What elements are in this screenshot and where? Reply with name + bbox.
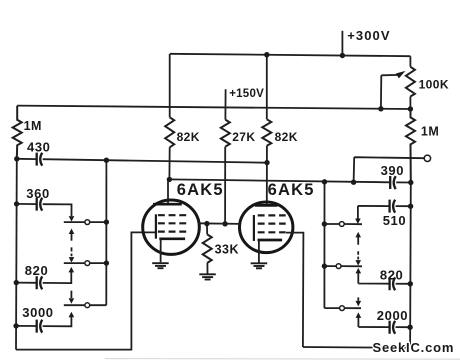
arrow 2000 to contact C — [356, 312, 362, 318]
wire +300V top rail — [170, 54, 410, 56]
switch contact 1 line — [64, 221, 107, 223]
node switch bus at 430 line — [104, 158, 109, 163]
svg-text:+150V: +150V — [229, 88, 264, 100]
node 820R at right cap bus — [408, 281, 413, 286]
svg-text:6AK5: 6AK5 — [177, 181, 224, 199]
switch contact 2 terminal — [85, 261, 90, 266]
switch contact C line — [324, 307, 361, 309]
node contact 1 at switch bus — [104, 219, 109, 224]
node right switch bus at plate line — [322, 179, 327, 184]
svg-text:+300V: +300V — [347, 28, 390, 43]
arrow down above contact 3 — [69, 291, 75, 304]
svg-text:430: 430 — [27, 139, 51, 154]
arrow 360 to contact 1 — [69, 216, 75, 222]
svg-text:390: 390 — [381, 163, 405, 178]
node wiper at +150V rail — [378, 106, 383, 111]
svg-text:100K: 100K — [419, 77, 449, 91]
switch contact 1 terminal — [85, 220, 90, 225]
wire V2 plate lead — [266, 163, 268, 205]
wire 100K pot bottom lead — [409, 97, 411, 110]
switch contact 3 line — [64, 304, 107, 306]
arrow up below contact 1 — [69, 229, 75, 241]
arrow down above contact C — [356, 297, 362, 306]
switch contact B terminal — [336, 264, 341, 269]
switch contact 2 line — [64, 262, 107, 264]
resistor 82K (V2 plate load) — [262, 119, 271, 146]
switch contact 3 terminal — [85, 303, 90, 308]
wire left switch bus — [105, 160, 107, 305]
svg-text:360: 360 — [26, 186, 50, 201]
tube V2 6AK5 — [240, 202, 293, 262]
wire 82K#2 top lead — [266, 55, 268, 120]
output terminal — [424, 155, 430, 161]
svg-text:1M: 1M — [421, 124, 439, 138]
node +300V supply lead — [341, 31, 343, 56]
potentiometer 100K — [406, 67, 415, 97]
svg-text:2000: 2000 — [377, 308, 408, 323]
switch contact B line — [324, 265, 362, 267]
node +300V lead at rail — [340, 53, 345, 58]
arrow 820 to contact 2 — [69, 267, 75, 273]
resistor 1M right (grid leak V2) — [406, 109, 415, 182]
wire right cap bus — [409, 183, 412, 348]
resistor 1M left (grid leak V1) — [13, 106, 22, 159]
wire +150V rail — [17, 106, 410, 109]
arrow up below contact A — [355, 232, 361, 245]
wire V1 plate line — [169, 179, 410, 182]
switch contact C terminal — [340, 306, 345, 311]
capacitor 390 — [390, 176, 396, 189]
svg-text:SeekIC.com: SeekIC.com — [373, 340, 455, 355]
resistor 82K (V1 plate load) — [165, 117, 174, 147]
wire bottom right (V2 grid return) — [303, 346, 410, 349]
ground 33K — [199, 274, 216, 279]
arrow 3000 to contact 3 — [69, 312, 75, 318]
capacitor 510 — [358, 200, 411, 219]
node output tap at plate line — [351, 180, 356, 185]
svg-text:82K: 82K — [275, 130, 298, 144]
wiper arrowhead — [396, 68, 407, 78]
wire bottom left — [16, 232, 156, 349]
svg-text:1M: 1M — [24, 119, 42, 133]
node 2000 at right cap bus — [407, 325, 412, 330]
node 360 at left bus — [14, 201, 19, 206]
node contact B at right switch bus — [322, 263, 327, 268]
wire 82K#2 bottom lead — [266, 146, 268, 163]
node V2 plate junction — [264, 160, 269, 165]
node 33K at screen line — [204, 221, 209, 226]
resistor 33K (screen bleeder) — [203, 224, 212, 274]
capacitor 430 — [17, 153, 267, 166]
node 1M left at 430 line — [14, 156, 19, 161]
svg-text:33K: 33K — [215, 243, 239, 257]
wire V2 grid lead — [286, 233, 303, 347]
arrow down above contact B — [355, 251, 361, 265]
ground V2 cathode — [251, 263, 268, 268]
node V1 plate junction — [167, 177, 172, 182]
svg-text:6AK5: 6AK5 — [268, 181, 315, 199]
capacitor 360 — [17, 198, 72, 216]
wire 100K pot top lead — [409, 56, 411, 67]
wire pot wiper arm — [381, 75, 400, 109]
wire 82K#1 bottom lead — [168, 147, 170, 179]
node +150V supply lead — [224, 89, 226, 119]
arrow down above contact 2 — [69, 247, 75, 262]
node pot bottom at +150V rail — [408, 106, 413, 111]
node 820 at left bus — [14, 280, 19, 285]
svg-text:3000: 3000 — [22, 305, 53, 320]
node 3000 at left bus — [13, 323, 18, 328]
node 82K#2 at +300V rail — [264, 52, 269, 57]
arrow 820 to contact B — [356, 268, 362, 274]
svg-text:82K: 82K — [177, 130, 200, 144]
capacitor 3000 — [16, 317, 71, 333]
svg-text:510: 510 — [383, 213, 407, 228]
node contact 2 at switch bus — [104, 260, 109, 265]
faint page edge — [105, 358, 460, 361]
node 27K at screen line — [222, 221, 227, 226]
svg-text:27K: 27K — [232, 130, 255, 144]
wire screen line between tubes — [198, 222, 241, 225]
arrow 510 to contact A — [355, 219, 361, 225]
capacitor 820 left — [16, 272, 71, 290]
node 1M right at 390 line — [408, 180, 413, 185]
capacitor 820 right — [358, 273, 410, 290]
tube V1 6AK5 — [143, 179, 200, 262]
node 510 at right cap bus — [408, 204, 413, 209]
node contact A at right switch bus — [322, 221, 327, 226]
svg-text:820: 820 — [25, 263, 49, 278]
switch contact A terminal — [339, 222, 344, 227]
ground V1 cathode — [152, 263, 169, 268]
wire right switch bus — [323, 182, 325, 308]
capacitor 2000 — [358, 318, 410, 334]
wire output tap — [354, 157, 425, 182]
switch contact A line — [325, 223, 363, 225]
svg-text:820: 820 — [380, 268, 404, 283]
wire left grid bus (V1 grid) — [15, 159, 18, 350]
wire 27K bottom lead — [224, 147, 226, 224]
resistor 27K (screen dropper) — [221, 120, 230, 147]
wire 82K#1 top lead — [169, 54, 171, 118]
